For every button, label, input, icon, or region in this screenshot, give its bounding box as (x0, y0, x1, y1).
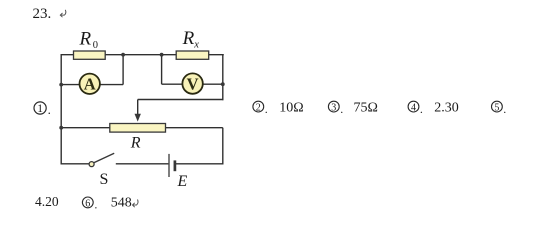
svg-text:548: 548 (111, 195, 132, 210)
option marker 2 circled, value 10 ohm (253, 100, 304, 116)
option marker 5 circled (492, 101, 507, 116)
svg-text:1: 1 (37, 103, 43, 115)
svg-text:6: 6 (85, 198, 90, 209)
svg-text:23.: 23. (33, 6, 52, 22)
wire ammeter branch horizontal (61, 84, 123, 86)
svg-text:4: 4 (411, 103, 416, 114)
svg-text:4.20: 4.20 (35, 194, 59, 209)
svg-text:10Ω: 10Ω (279, 100, 303, 115)
wire top horizontal (61, 54, 224, 56)
svg-text:V: V (187, 74, 199, 93)
ammeter A (80, 74, 100, 94)
junction node left at rheostat row (59, 126, 63, 130)
svg-text:E: E (177, 173, 188, 190)
resistor Rx (176, 51, 209, 59)
wire switch to battery (116, 163, 169, 165)
svg-text:.: . (420, 102, 423, 116)
svg-text:.: . (94, 198, 97, 212)
wire battery to right (176, 163, 224, 165)
battery E short plate (174, 160, 177, 171)
wire ammeter branch right vertical (122, 55, 124, 85)
wire left vertical (60, 55, 62, 165)
wire voltmeter branch left vertical (161, 55, 163, 84)
svg-text:.: . (503, 102, 506, 116)
svg-text:R: R (130, 134, 141, 151)
wire right vertical upper (222, 54, 224, 100)
junction node right of voltmeter (221, 82, 225, 86)
svg-text:2: 2 (256, 103, 261, 114)
junction node top of voltmeter branch (160, 53, 164, 57)
svg-text:.: . (340, 102, 343, 116)
svg-text:x: x (193, 39, 199, 50)
wire slider tap horizontal (138, 99, 224, 101)
rheostat R body (110, 124, 166, 133)
pilcrow return mark after 23. (60, 10, 66, 17)
wire rheostat row horizontal (61, 127, 223, 129)
svg-text:R: R (79, 29, 92, 50)
svg-text:S: S (100, 171, 109, 188)
option marker 4 circled, value 2.30 (408, 100, 459, 116)
wire slider tap vertical (137, 100, 139, 116)
option marker 6 circled, value 548 (82, 195, 131, 211)
svg-text:.: . (265, 102, 268, 116)
svg-text:A: A (84, 75, 96, 94)
svg-text:2.30: 2.30 (434, 100, 459, 115)
rheostat slider arrowhead (135, 114, 141, 122)
svg-text:0: 0 (93, 40, 98, 51)
svg-text:3: 3 (331, 103, 336, 114)
wire right vertical lower (222, 128, 224, 165)
pilcrow return mark after 548 (133, 200, 139, 208)
option marker 1 circled (34, 102, 51, 117)
wire bottom left to switch (61, 163, 89, 165)
svg-text:75Ω: 75Ω (354, 100, 378, 115)
svg-text:5: 5 (494, 103, 499, 114)
voltmeter V (182, 73, 202, 93)
wire voltmeter branch horizontal (162, 83, 223, 85)
battery E long plate (168, 154, 170, 177)
switch S blade (94, 153, 114, 162)
svg-text:R: R (182, 28, 195, 49)
resistor R0 (74, 51, 106, 59)
svg-text:.: . (48, 102, 51, 117)
option marker 3 circled, value 75 ohm (328, 100, 378, 116)
junction node top of ammeter branch (121, 53, 125, 57)
junction node left at ammeter row (59, 83, 63, 87)
switch S pivot (89, 162, 94, 167)
